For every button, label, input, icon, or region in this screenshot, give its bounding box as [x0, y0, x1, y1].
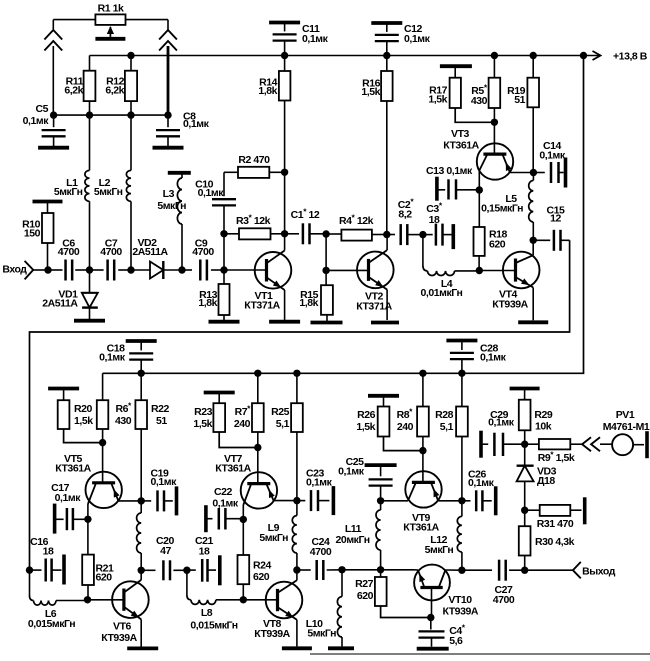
- inductor L1 5mkGn: [54, 115, 90, 270]
- svg-text:0,1мк: 0,1мк: [338, 466, 365, 478]
- terminal Vhod (input): [2, 261, 48, 280]
- svg-text:R3* 12k: R3* 12k: [236, 213, 271, 228]
- svg-text:0,1мк: 0,1мк: [55, 492, 82, 504]
- svg-text:5мкГн: 5мкГн: [157, 200, 186, 212]
- svg-text:VT3: VT3: [451, 128, 470, 140]
- node R4 left: [322, 230, 329, 237]
- capacitor C21 18: [187, 535, 220, 585]
- node VT9 emitter: [458, 497, 465, 504]
- svg-text:4700: 4700: [100, 246, 122, 258]
- svg-text:4700: 4700: [58, 246, 80, 258]
- node VT9 collector: [377, 497, 384, 504]
- node VT5 collector: [84, 516, 91, 523]
- wire C1-R4node: [310, 233, 327, 235]
- node VT2 base: [322, 267, 329, 274]
- node feedback-C16: [26, 566, 33, 573]
- capacitor C28 0,1mk: [446, 341, 506, 374]
- capacitor C11 0,1mk: [273, 23, 329, 56]
- connector arrow right: [159, 20, 177, 116]
- resistor R28 5,1: [435, 373, 468, 501]
- svg-text:C1* 12: C1* 12: [291, 207, 320, 222]
- resistor R20 1,5k: [58, 389, 103, 443]
- wire base node to VT1: [224, 269, 267, 271]
- svg-text:М4761-М1: М4761-М1: [603, 421, 650, 433]
- inductor L3 5mkGn: [157, 173, 186, 270]
- ground (VD1): [74, 319, 105, 323]
- node R2 right: [281, 169, 288, 176]
- resistor R18 620: [474, 190, 508, 271]
- svg-text:47: 47: [160, 545, 171, 557]
- transistor VT3 KT361A: [443, 128, 533, 190]
- svg-text:0,1мк: 0,1мк: [99, 352, 126, 364]
- resistor R4* 12k: [326, 213, 387, 241]
- capacitor C24 4700: [297, 536, 342, 580]
- transistor VT2 KT371A: [356, 235, 393, 321]
- transistor VT5 KT361A: [55, 453, 141, 519]
- svg-text:R22: R22: [151, 403, 170, 415]
- node input-R10: [44, 266, 51, 273]
- ground (R31): [583, 497, 587, 524]
- node VT7 base: [254, 444, 261, 451]
- svg-text:240: 240: [397, 421, 414, 433]
- inductor L2 5mkGn: [94, 115, 131, 270]
- wire input line: [48, 269, 63, 271]
- svg-text:R25: R25: [271, 406, 290, 418]
- svg-text:0,1мк: 0,1мк: [468, 477, 495, 489]
- resistor R29 10k: [519, 389, 553, 445]
- node L11-R27: [377, 566, 384, 573]
- connector arrows to PV1: [582, 437, 612, 451]
- svg-text:C5: C5: [35, 103, 48, 115]
- resistor R19 51: [507, 56, 539, 173]
- node R9-VD3: [521, 441, 528, 448]
- ground (C5): [38, 146, 69, 150]
- svg-text:18: 18: [429, 214, 440, 226]
- wire C10-R13 node: [223, 234, 225, 270]
- node VT1 collector: [281, 230, 288, 237]
- transistor VT6 KT939A: [101, 570, 148, 646]
- svg-text:R31 470: R31 470: [537, 518, 574, 530]
- svg-text:4700: 4700: [493, 594, 515, 606]
- inductor L12 5mkGn: [425, 501, 462, 570]
- wire C9-base node: [211, 269, 224, 271]
- node L3 bottom: [178, 266, 185, 273]
- svg-text:0,1мк: 0,1мк: [488, 417, 515, 429]
- svg-text:5,1: 5,1: [440, 421, 454, 433]
- wire VT3 base drop: [493, 122, 495, 154]
- svg-text:VT10: VT10: [448, 594, 472, 606]
- transistor VT1 KT371A: [244, 234, 291, 320]
- node VT10 base: [427, 614, 434, 621]
- inductor L6 0,015mkGn: [28, 570, 88, 630]
- svg-text:0,1мк: 0,1мк: [539, 150, 566, 162]
- ground (R13): [209, 320, 240, 324]
- capacitor C22 0,1mk: [206, 486, 243, 532]
- wire C2-C3node: [407, 234, 423, 236]
- node VT7 collector: [240, 516, 247, 523]
- ground (C11): [269, 21, 300, 25]
- svg-text:R30 4,3k: R30 4,3k: [535, 536, 575, 548]
- svg-text:0,1мк: 0,1мк: [404, 33, 431, 45]
- resistor R12 6,2k: [105, 56, 137, 116]
- resistor R27 620: [355, 570, 431, 618]
- resistor R9* 1,5k: [525, 439, 582, 464]
- wire C6-L1: [75, 269, 89, 271]
- wire VT10 emitter line: [381, 569, 415, 571]
- ground (R1 wiper): [95, 37, 125, 41]
- svg-text:1,5k: 1,5k: [74, 415, 93, 427]
- resistor R5* 430: [471, 56, 500, 123]
- wire C7-L2: [118, 269, 131, 271]
- svg-text:0,015мкГн: 0,015мкГн: [190, 620, 237, 632]
- wire stage3 input line: [342, 569, 381, 571]
- svg-text:R2 470: R2 470: [238, 154, 270, 166]
- svg-text:620: 620: [357, 590, 374, 602]
- svg-text:КТ371А: КТ371А: [356, 301, 392, 313]
- resistor R7* 240: [234, 373, 264, 447]
- svg-text:4700: 4700: [310, 546, 332, 558]
- node rail-C12: [383, 52, 390, 59]
- capacitor C10 0,1mk: [195, 172, 236, 234]
- node C8: [164, 111, 171, 118]
- node VT8 collector: [293, 566, 300, 573]
- svg-text:5мкГн: 5мкГн: [425, 544, 454, 556]
- node rail-C11: [281, 52, 288, 59]
- svg-text:R20: R20: [74, 403, 93, 415]
- svg-text:0,1мк: 0,1мк: [306, 477, 333, 489]
- svg-text:10k: 10k: [535, 421, 552, 433]
- resistor R16 1,5k: [361, 56, 392, 235]
- svg-text:8,2: 8,2: [398, 209, 412, 221]
- svg-text:240: 240: [234, 418, 251, 430]
- wire R16node-C2: [387, 234, 395, 236]
- resistor R13 1,8k: [198, 270, 229, 320]
- resistor R15 1,8k: [299, 270, 333, 321]
- ground (R29 top): [510, 387, 540, 391]
- node VT1 base: [220, 266, 227, 273]
- svg-text:R27: R27: [355, 578, 374, 590]
- node VT3 base: [491, 119, 498, 126]
- resistor R11 6,2k: [64, 71, 95, 115]
- svg-text:18: 18: [199, 546, 210, 558]
- svg-text:0,1мк: 0,1мк: [151, 476, 178, 488]
- svg-text:КТ361А: КТ361А: [55, 463, 91, 475]
- node VT7 emitter: [293, 497, 300, 504]
- resistor R14 1,8k: [258, 56, 290, 173]
- svg-text:КТ361А: КТ361А: [443, 140, 479, 152]
- capacitor C15 12: [533, 205, 569, 251]
- node VD3-R31-R30: [521, 507, 528, 514]
- diode VD2 2A511A: [132, 237, 182, 279]
- diode VD3 D18: [517, 444, 557, 510]
- resistor R25 5,1: [271, 373, 303, 500]
- capacitor C20 47: [141, 535, 187, 580]
- svg-text:+13,8 В: +13,8 В: [613, 51, 648, 63]
- svg-text:Вход: Вход: [2, 264, 27, 276]
- node C2-C3: [419, 231, 426, 238]
- svg-text:C22: C22: [214, 486, 233, 498]
- connector arrow left: [44, 20, 62, 116]
- node L1 top: [86, 111, 93, 118]
- ground (C8): [153, 146, 184, 150]
- resistor R17 1,5k: [428, 66, 494, 122]
- capacitor C27 4700: [462, 560, 525, 606]
- capacitor C18 0,1mk: [99, 341, 157, 373]
- node rail-R12: [127, 52, 134, 59]
- wire VT4 base line: [479, 270, 515, 272]
- svg-text:620: 620: [489, 239, 506, 251]
- capacitor C19 0,1mk: [141, 468, 177, 516]
- capacitor C5 0,1mk: [23, 103, 66, 146]
- resistor R30 4,3k: [519, 510, 575, 570]
- svg-text:0,1мк: 0,1мк: [23, 115, 50, 127]
- svg-text:620: 620: [253, 571, 270, 583]
- wire VT10 top pass: [414, 569, 462, 571]
- svg-text:0,15мкГн: 0,15мкГн: [481, 203, 523, 215]
- svg-text:L8: L8: [201, 607, 213, 619]
- node L2 bottom: [127, 266, 134, 273]
- transistor VT9 KT361A: [381, 471, 462, 533]
- capacitor C14 0,1mk: [533, 140, 565, 188]
- svg-text:R28: R28: [435, 409, 454, 421]
- ground (VT4 emitter): [518, 320, 548, 324]
- wire VT9 base drop: [422, 451, 424, 483]
- svg-text:R9* 1,5k: R9* 1,5k: [538, 450, 575, 465]
- capacitor C6 4700: [58, 238, 80, 281]
- ground (C4): [417, 647, 449, 651]
- node C28-R28: [458, 370, 465, 377]
- svg-text:0,1мк: 0,1мк: [212, 498, 239, 510]
- svg-text:КТ939А: КТ939А: [492, 299, 528, 311]
- capacitor C16 18: [30, 536, 65, 585]
- node rail-R5: [491, 52, 498, 59]
- wire L2-VD2: [131, 269, 150, 271]
- svg-text:5мкГн: 5мкГн: [307, 628, 336, 640]
- svg-text:R4* 12k: R4* 12k: [339, 213, 374, 228]
- svg-text:2А511А: 2А511А: [42, 298, 78, 310]
- node C13-R18: [476, 186, 483, 193]
- inductor L5 0,15mkGn: [481, 173, 533, 241]
- svg-text:430: 430: [471, 95, 488, 107]
- svg-text:Выход: Выход: [582, 566, 616, 578]
- capacitor C3* 18: [423, 201, 452, 246]
- node VT8 base-R24: [240, 596, 247, 603]
- svg-text:КТ371А: КТ371А: [244, 300, 280, 312]
- svg-text:КТ939А: КТ939А: [443, 606, 479, 618]
- inductor L4 0,01mkGn: [421, 235, 480, 299]
- svg-text:0,1мк: 0,1мк: [183, 118, 210, 130]
- svg-text:5,1: 5,1: [276, 418, 290, 430]
- svg-text:КТ939А: КТ939А: [101, 632, 137, 644]
- ground (PV1): [645, 431, 649, 458]
- inductor L10 5mkGn: [306, 570, 342, 647]
- resistor R23 1,5k: [193, 393, 257, 448]
- ground (VT2 emitter): [371, 321, 399, 325]
- node L1 bottom: [86, 266, 93, 273]
- svg-text:5мкГн: 5мкГн: [94, 186, 123, 198]
- wire feedback C15 to input of 2nd row: [30, 240, 570, 570]
- svg-text:1,5k: 1,5k: [428, 94, 447, 106]
- diode VD1 2A511A: [42, 270, 98, 319]
- svg-text:R1 1k: R1 1k: [98, 3, 124, 15]
- svg-text:КТ361А: КТ361А: [215, 463, 251, 475]
- svg-text:1,5k: 1,5k: [361, 86, 380, 98]
- svg-text:150: 150: [24, 228, 41, 240]
- node VT6 collector: [138, 567, 145, 574]
- ground (R15): [311, 321, 343, 325]
- ground (VT1 emitter): [269, 320, 300, 324]
- wire VT6 base: [88, 599, 124, 601]
- wire VD2-C9: [182, 269, 192, 271]
- svg-text:4700: 4700: [192, 246, 214, 258]
- scan artifact bottom edge: [310, 653, 650, 655]
- svg-text:0,1мк: 0,1мк: [480, 352, 507, 364]
- capacitor C1* 12: [291, 207, 320, 245]
- node VT6 base-R21: [84, 596, 91, 603]
- resistor R10 150: [22, 202, 53, 271]
- inductor L11 20mkGn: [336, 501, 381, 570]
- terminal Vyhod (output): [525, 562, 616, 579]
- svg-text:R29: R29: [534, 409, 553, 421]
- svg-text:КТ361А: КТ361А: [403, 522, 439, 534]
- meter PV1 M4761-M1: [603, 409, 650, 455]
- capacitor C17 0,1mk: [51, 482, 88, 534]
- ground (R26 top): [368, 394, 399, 398]
- node C5: [50, 111, 57, 118]
- transistor VT8 KT939A: [254, 570, 302, 646]
- node VT9 base: [419, 447, 426, 454]
- wire VT2 base line: [326, 269, 368, 271]
- node VT5 base: [99, 439, 106, 446]
- node rail-supply-drop: [580, 52, 587, 59]
- node dist-R7: [254, 370, 261, 377]
- node rail-R19: [530, 52, 537, 59]
- svg-text:R24: R24: [253, 560, 272, 572]
- ground (R20 top): [48, 387, 79, 391]
- wire VT8 base: [243, 599, 277, 601]
- resistor R3* 12k: [224, 213, 285, 240]
- node R16 bottom: [383, 231, 390, 238]
- svg-text:5мкГн: 5мкГн: [259, 532, 288, 544]
- node VT3 emitter: [530, 169, 537, 176]
- resistor R6* 430: [97, 400, 132, 442]
- resistor R8* 240: [397, 373, 429, 450]
- svg-text:5мкГн: 5мкГн: [54, 186, 83, 198]
- node dist-R8: [419, 370, 426, 377]
- capacitor C26 0,1mk: [462, 469, 496, 516]
- svg-text:VT6: VT6: [113, 621, 132, 633]
- svg-text:20мкГн: 20мкГн: [336, 534, 370, 546]
- capacitor C23 0,1mk: [297, 468, 334, 516]
- node C24-L10: [338, 566, 345, 573]
- capacitor C4* 5,6: [419, 618, 466, 648]
- node L2 top: [127, 111, 134, 118]
- capacitor C29 0,1mk: [481, 409, 525, 458]
- wire VT1col-C1: [285, 233, 299, 235]
- potentiometer R1 1k: [53, 3, 168, 37]
- svg-text:1,8k: 1,8k: [258, 85, 277, 97]
- svg-text:КТ939А: КТ939А: [254, 628, 290, 640]
- ground (C12): [371, 21, 402, 25]
- ground (L10): [328, 646, 354, 650]
- wire +13,8 V rail: [90, 51, 648, 63]
- node VT5 emitter: [138, 497, 145, 504]
- ground (C3): [451, 224, 455, 249]
- svg-text:1,5k: 1,5k: [356, 421, 375, 433]
- capacitor C12 0,1mk: [375, 23, 431, 56]
- ground (VT6 emitter): [127, 647, 158, 651]
- transistor VT10 KT939A: [414, 565, 479, 618]
- capacitor C2* 8,2: [398, 197, 415, 246]
- resistor R26 1,5k: [356, 396, 423, 451]
- svg-text:0,1мк: 0,1мк: [302, 33, 329, 45]
- transistor VT4 KT939A: [492, 240, 539, 320]
- wire R6 top stem: [102, 373, 104, 400]
- node output: [521, 567, 528, 574]
- capacitor C9 4700: [192, 238, 214, 281]
- svg-text:C13 0,1мк: C13 0,1мк: [426, 165, 473, 177]
- node L5-C15-VT4col: [530, 237, 537, 244]
- svg-text:2А511А: 2А511А: [132, 246, 168, 258]
- svg-text:Д18: Д18: [537, 475, 555, 487]
- resistor R31 470: [525, 505, 582, 530]
- svg-text:5,6: 5,6: [449, 635, 463, 647]
- resistor R24 620: [238, 519, 272, 600]
- label L9: [259, 522, 288, 544]
- node dist-R25: [293, 370, 300, 377]
- node R3 left: [220, 230, 227, 237]
- ground (R17 top): [440, 64, 472, 68]
- wire R14-R3 node: [284, 172, 286, 234]
- inductor L9 5mkGn: [292, 501, 297, 570]
- svg-text:PV1: PV1: [616, 409, 635, 421]
- ground (VT8 emitter): [282, 646, 312, 650]
- wire L1-C7: [90, 269, 104, 271]
- resistor R22 51: [135, 373, 169, 501]
- svg-text:0,015мкГн: 0,015мкГн: [28, 618, 75, 630]
- svg-text:6,2k: 6,2k: [64, 85, 83, 97]
- svg-text:51: 51: [156, 415, 167, 427]
- node VT10 collector: [458, 567, 465, 574]
- ground (L3 top): [168, 171, 191, 175]
- wire VT5 base drop: [102, 443, 104, 483]
- node VT4 base: [476, 267, 483, 274]
- capacitor C7 4700: [100, 238, 122, 281]
- inductor L7 (tank coil): [137, 501, 142, 570]
- svg-text:0,01мкГн: 0,01мкГн: [421, 287, 463, 299]
- node C18-R22: [138, 370, 145, 377]
- svg-text:1,8k: 1,8k: [198, 297, 217, 309]
- resistor R2 470: [224, 154, 285, 178]
- inductor L8 0,015mkGn: [187, 570, 243, 631]
- capacitor C8 0,1mk: [156, 111, 210, 147]
- svg-text:1,8k: 1,8k: [299, 297, 318, 309]
- svg-text:51: 51: [514, 94, 525, 106]
- svg-text:620: 620: [96, 572, 113, 584]
- resistor R21 620: [82, 519, 114, 600]
- wire VT7 base drop: [257, 448, 259, 484]
- wire R4node down: [325, 234, 327, 270]
- wire rail to R11: [89, 56, 91, 71]
- wire +13.8 drop to row2: [103, 56, 584, 374]
- svg-text:18: 18: [43, 546, 54, 558]
- svg-text:L3: L3: [163, 188, 175, 200]
- ground (R23 top): [204, 391, 235, 395]
- svg-text:0,1мк: 0,1мк: [198, 187, 225, 199]
- transistor VT7 KT361A: [215, 453, 297, 519]
- wire C5-C8 bus: [54, 114, 168, 116]
- capacitor C25 0,1mk: [338, 456, 396, 501]
